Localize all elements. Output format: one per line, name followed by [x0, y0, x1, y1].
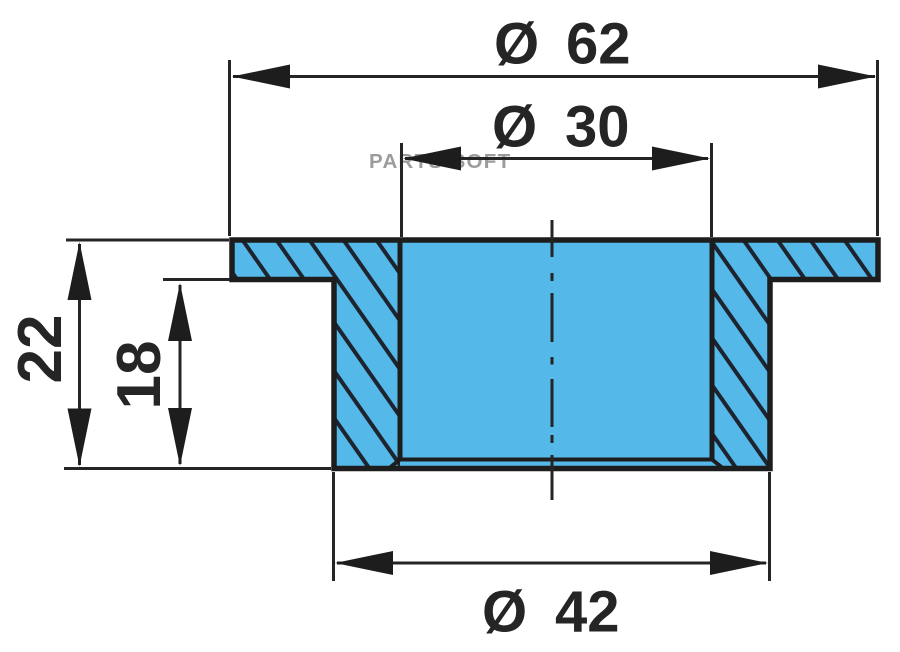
ext line dia62 left	[228, 60, 231, 236]
ext line dia30 right	[710, 143, 713, 237]
arrow dia62 right	[818, 65, 876, 89]
svg-text:18: 18	[105, 341, 174, 410]
bushing body blue silhouette	[232, 240, 878, 469]
arrow 18 top	[168, 283, 192, 341]
bore bottom recess line	[400, 458, 712, 462]
arrow dia30 right	[652, 147, 710, 171]
dimension line dia30	[405, 157, 708, 160]
hatching left wall	[72, 235, 581, 485]
hatching right wall	[540, 235, 900, 485]
centerline	[551, 220, 554, 500]
arrow dia42 left	[335, 551, 393, 575]
ext line 18 top	[163, 278, 230, 281]
svg-text:62: 62	[566, 12, 631, 77]
ext line dia42 left	[332, 472, 335, 581]
svg-text:Ø: Ø	[482, 580, 527, 645]
ext line dia42 right	[768, 472, 771, 581]
svg-text:30: 30	[565, 95, 630, 160]
arrow dia30 left	[403, 147, 461, 171]
svg-text:42: 42	[555, 580, 620, 645]
dimension line dia62	[233, 75, 875, 78]
ext line dia30 left	[400, 143, 403, 237]
recess chamfer left	[390, 460, 400, 468]
extension lines	[64, 60, 878, 581]
svg-text:Ø: Ø	[494, 12, 539, 77]
arrow 22 top	[68, 242, 92, 300]
ext line dia62 right	[876, 60, 879, 236]
svg-text:22: 22	[6, 315, 75, 384]
arrow dia42 right	[710, 551, 768, 575]
arrow 22 bottom	[68, 409, 92, 467]
bushing outline	[232, 240, 878, 469]
bore left edge	[398, 240, 403, 460]
dimension line 18	[179, 285, 182, 464]
ext line 22/18 bottom	[64, 467, 331, 470]
arrow dia62 left	[232, 65, 290, 89]
bore right edge	[710, 240, 715, 460]
recess chamfer right	[712, 460, 722, 468]
svg-text:Ø: Ø	[492, 95, 537, 160]
dimension line 22	[78, 244, 81, 465]
arrow 18 bottom	[168, 408, 192, 466]
ext line 22 top	[66, 239, 229, 242]
dimension line dia42	[337, 562, 766, 565]
